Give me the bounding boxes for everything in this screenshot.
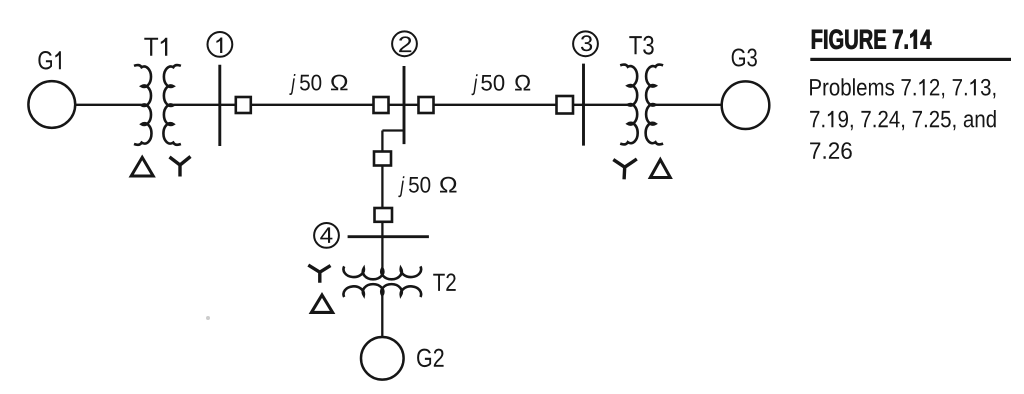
node circle 4 [314, 223, 339, 248]
label G2 [417, 349, 444, 368]
node circle 1 [208, 32, 233, 57]
label G3 [732, 49, 757, 67]
wire G1 to T1 [75, 104, 141, 106]
label T3 [629, 36, 653, 55]
jog wire bus2 to branch [382, 129, 403, 131]
bus 1 [218, 65, 221, 146]
reactance label 1 ohm [331, 75, 348, 91]
node circle 3 [573, 31, 598, 56]
transformer T3 secondary winding [646, 65, 663, 145]
label G1 [38, 51, 61, 70]
transformer T2 upper winding [343, 266, 421, 279]
reactance label 2 j [472, 74, 478, 95]
label T2 [433, 273, 456, 291]
digit of node 2 [399, 36, 411, 52]
breaker line 2-3 right [557, 96, 574, 114]
breaker line 1-2 right [374, 97, 389, 113]
bus 3 [582, 64, 585, 146]
branch wire to T2 [381, 131, 383, 273]
transformer T2 lower winding [343, 284, 421, 297]
generator G2 [361, 337, 404, 380]
breaker line 1-2 left [236, 97, 251, 113]
transformer T3 primary winding [620, 65, 637, 145]
transformer T1 primary winding [134, 65, 151, 145]
wye symbol of T2 [308, 265, 330, 283]
breaker line 2-3 left [419, 97, 434, 113]
caption line 1 [810, 78, 995, 98]
breaker branch upper [374, 152, 391, 166]
digit of node 4 [320, 227, 332, 243]
reactance label 3 j [398, 176, 404, 197]
bus 4 [348, 235, 429, 238]
reactance label 1 j [289, 74, 295, 95]
node circle 2 [392, 31, 417, 56]
wire T1 to bus1 to bus3 [173, 104, 583, 106]
caption line 3 [810, 142, 852, 159]
reactance label 3 50 [409, 177, 430, 193]
scan smudge [206, 316, 210, 320]
wire bus3 to T3 [584, 104, 628, 106]
caption rule [810, 58, 1011, 61]
transformer T1 secondary winding [163, 65, 180, 145]
generator G3 [722, 81, 770, 129]
figure caption title [812, 30, 931, 50]
digit of node 3 [581, 35, 592, 51]
wire T3 to G3 [656, 104, 722, 106]
wye symbol of T3 [613, 159, 637, 179]
breaker branch lower [375, 208, 393, 222]
bus 2 [403, 66, 406, 144]
caption line 2 [810, 110, 996, 130]
delta symbol of T3 [650, 160, 670, 178]
label T1 [144, 38, 167, 56]
digit of node 1 [216, 38, 222, 54]
reactance label 2 ohm [515, 75, 530, 91]
reactance label 2 50 [481, 75, 504, 91]
wye symbol of T1 [170, 157, 191, 177]
generator G1 [28, 81, 75, 128]
reactance label 1 50 [300, 75, 321, 91]
reactance label 3 ohm [440, 177, 457, 193]
delta symbol of T1 [131, 157, 153, 176]
delta symbol of T2 [311, 295, 332, 312]
wire T2 to G2 [381, 294, 383, 338]
